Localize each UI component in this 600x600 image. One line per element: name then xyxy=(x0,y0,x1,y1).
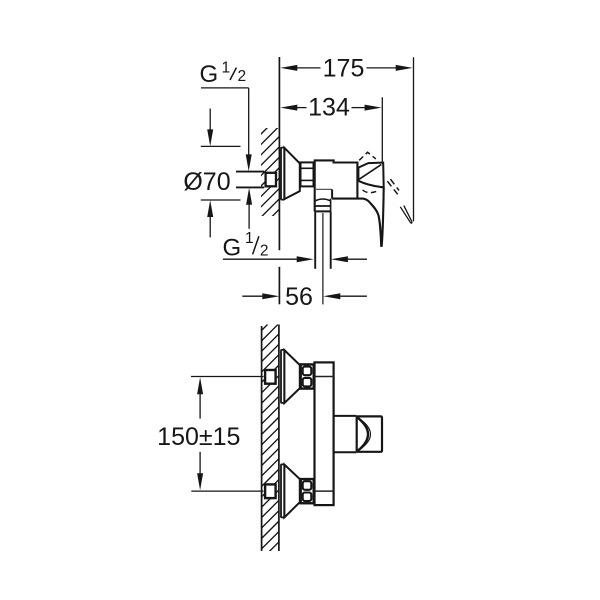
svg-text:Ø70: Ø70 xyxy=(183,168,230,196)
svg-text:G: G xyxy=(200,61,219,88)
svg-text:G: G xyxy=(223,235,242,262)
svg-text:150±15: 150±15 xyxy=(157,423,240,451)
svg-text:56: 56 xyxy=(285,283,313,311)
svg-text:2: 2 xyxy=(237,68,246,85)
svg-text:1: 1 xyxy=(245,230,254,247)
svg-text:2: 2 xyxy=(260,243,269,260)
svg-text:1: 1 xyxy=(221,60,230,77)
svg-text:175: 175 xyxy=(323,55,365,83)
svg-text:134: 134 xyxy=(308,94,350,122)
